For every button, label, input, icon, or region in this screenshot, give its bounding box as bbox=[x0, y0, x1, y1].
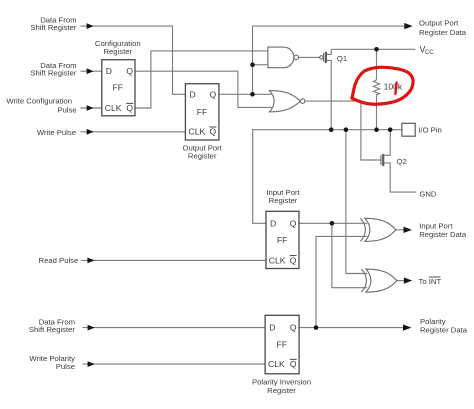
svg-text:Q: Q bbox=[210, 127, 217, 137]
svg-text:Write Configuration: Write Configuration bbox=[6, 96, 72, 105]
svg-text:Shift Register: Shift Register bbox=[29, 325, 76, 334]
svg-text:Pulse: Pulse bbox=[56, 362, 75, 371]
svg-text:D: D bbox=[190, 89, 196, 99]
svg-text:Shift Register: Shift Register bbox=[30, 69, 77, 78]
svg-text:D: D bbox=[269, 323, 275, 333]
svg-text:D: D bbox=[270, 218, 276, 228]
svg-text:Shift Register: Shift Register bbox=[30, 23, 77, 32]
svg-text:Pulse: Pulse bbox=[57, 105, 76, 114]
svg-text:Q: Q bbox=[290, 323, 297, 333]
svg-text:D: D bbox=[106, 66, 112, 76]
svg-text:CLK: CLK bbox=[269, 255, 286, 265]
svg-text:Register Data: Register Data bbox=[419, 230, 467, 239]
svg-text:CC: CC bbox=[425, 49, 434, 56]
svg-text:CLK: CLK bbox=[268, 359, 285, 369]
svg-text:Read Pulse: Read Pulse bbox=[39, 256, 79, 265]
svg-text:Register Data: Register Data bbox=[420, 326, 468, 335]
svg-text:Q2: Q2 bbox=[397, 157, 407, 166]
svg-text:FF: FF bbox=[197, 107, 208, 117]
svg-text:Q: Q bbox=[126, 66, 133, 76]
svg-text:FF: FF bbox=[113, 83, 124, 93]
svg-text:Register: Register bbox=[267, 386, 296, 395]
svg-text:Q: Q bbox=[290, 359, 297, 369]
svg-text:Q: Q bbox=[290, 218, 297, 228]
svg-text:Output Port: Output Port bbox=[419, 19, 459, 28]
svg-text:CLK: CLK bbox=[189, 127, 206, 137]
svg-text:Write Pulse: Write Pulse bbox=[37, 128, 76, 137]
svg-text:Q1: Q1 bbox=[337, 54, 347, 63]
svg-text:100k: 100k bbox=[384, 81, 403, 91]
svg-text:FF: FF bbox=[277, 235, 288, 245]
svg-text:CLK: CLK bbox=[105, 103, 122, 113]
svg-text:GND: GND bbox=[419, 190, 437, 199]
svg-text:I/O Pin: I/O Pin bbox=[418, 125, 442, 134]
svg-text:Q: Q bbox=[126, 103, 133, 113]
svg-text:Register: Register bbox=[269, 196, 298, 205]
svg-text:Register: Register bbox=[103, 47, 132, 56]
svg-text:Q: Q bbox=[290, 255, 297, 265]
svg-text:Register Data: Register Data bbox=[419, 28, 467, 37]
svg-text:Register: Register bbox=[188, 151, 217, 160]
svg-text:FF: FF bbox=[277, 340, 288, 350]
svg-text:To INT: To INT bbox=[419, 277, 442, 286]
svg-text:Q: Q bbox=[210, 89, 217, 99]
